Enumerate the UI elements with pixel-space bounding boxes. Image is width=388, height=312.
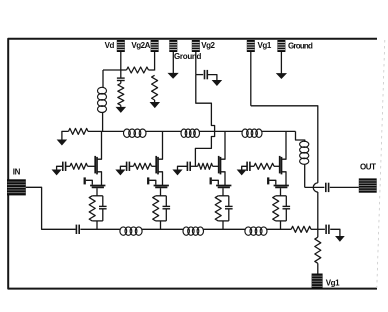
- capacitor C-s1 lead bot: [102, 209, 104, 221]
- capacitor C-s3 lead top: [228, 196, 230, 207]
- ground gate-term bypass: [336, 236, 344, 241]
- wire R-Vd to gnd: [120, 105, 122, 107]
- wire Vd node left: [103, 69, 121, 71]
- inductor L-out: [300, 141, 309, 164]
- capacitor C-gate-term: [326, 225, 329, 234]
- wire gate rail d: [267, 228, 291, 230]
- wire cell1 gnd stem: [57, 166, 63, 170]
- label Ground top-mid: [174, 52, 201, 61]
- transistor Q3B channel: [218, 186, 230, 188]
- wire drain rail d: [262, 130, 296, 132]
- wire RC1 bottom tee: [92, 220, 103, 222]
- wire Q4A source: [282, 172, 287, 185]
- wire RC4 bottom tee: [276, 220, 287, 222]
- resistor R-g3: [198, 163, 213, 169]
- resistor R-g2: [134, 163, 152, 169]
- resistor R-Vg1: [315, 237, 321, 263]
- transistor Q3B gate tick: [210, 177, 212, 184]
- label Vg1 top: [258, 41, 272, 50]
- inductor Ld2: [181, 129, 200, 137]
- transistor Q1A channel: [96, 157, 98, 175]
- wire Q4B gate lead: [269, 180, 276, 184]
- wire output to pad: [330, 186, 359, 188]
- ground Vd bias: [116, 107, 125, 112]
- wire Q1A drain: [97, 131, 102, 159]
- wire cell2 gnd stem: [120, 166, 126, 170]
- wire RC2 top tee: [156, 195, 167, 197]
- resistor R-Vd: [118, 83, 124, 105]
- svg-text:Ground: Ground: [288, 42, 313, 51]
- wire Vg2 pad stem: [195, 52, 197, 75]
- svg-text:IN: IN: [13, 167, 21, 176]
- label Vd: [105, 41, 115, 50]
- wire RC3 top tee: [218, 195, 229, 197]
- ground drain termination: [57, 140, 66, 145]
- label IN: [13, 167, 21, 176]
- ground cell3 bypass: [173, 170, 182, 175]
- pad Ground top-right: [277, 40, 285, 52]
- capacitor C-g2: [127, 162, 130, 171]
- resistor R-s2: [153, 196, 159, 221]
- pad Ground top-mid: [169, 40, 177, 52]
- transistor Q3A channel: [220, 157, 222, 175]
- resistor R-s4: [273, 196, 279, 221]
- pad Vd: [117, 40, 125, 52]
- svg-text:Ground: Ground: [174, 52, 201, 61]
- resistor R-g1: [70, 163, 88, 169]
- inductor Lg3: [245, 227, 267, 235]
- wire Vg1 feed: [251, 106, 318, 183]
- wire R-Vg1 to pad: [317, 263, 319, 273]
- transistor Q2B channel: [155, 186, 167, 188]
- wire Q4B source stem: [280, 188, 282, 196]
- wire gate rail a: [80, 228, 120, 230]
- capacitor C-g1: [63, 162, 66, 171]
- ground cell1 bypass: [52, 170, 61, 175]
- wire Q2A drain: [158, 131, 163, 159]
- ground cell4 bypass: [237, 170, 246, 175]
- resistor R-g4: [254, 163, 274, 169]
- capacitor C-s3: [225, 206, 233, 208]
- pad OUT: [359, 178, 377, 192]
- ground G6 symbol: [277, 74, 287, 79]
- wire Q3B source stem: [222, 188, 224, 196]
- wire Vg1 node down: [317, 229, 319, 237]
- resistor R-s1: [89, 196, 95, 221]
- wire Q3A source: [221, 172, 226, 185]
- wire Q1B source stem: [96, 188, 98, 196]
- inductor Ld3: [242, 129, 262, 137]
- wire Q4A drain: [282, 131, 287, 159]
- capacitor C-Vd stem: [120, 70, 122, 78]
- resistor R-gate-term: [291, 226, 311, 232]
- transistor Q4A channel: [281, 157, 283, 175]
- wire cell3 gnd stem: [178, 166, 188, 170]
- wire gate rail b: [142, 228, 183, 230]
- resistor R-drain-term: [69, 128, 89, 134]
- svg-text:Vg1: Vg1: [258, 41, 272, 50]
- transistor Q3B gate bar: [216, 185, 231, 187]
- svg-text:Vg1: Vg1: [326, 278, 340, 287]
- wire cell2 cap to R: [130, 165, 134, 167]
- capacitor C-out: [326, 183, 329, 192]
- wire cell4 cap to R: [250, 165, 254, 167]
- transistor Q1B gate tick: [84, 177, 86, 184]
- wire C-gate-term to gnd: [330, 229, 340, 236]
- wire R-VdVg2A leads: [121, 69, 155, 71]
- svg-text:Vg2: Vg2: [201, 41, 215, 50]
- wire drain jog: [296, 131, 305, 142]
- pad Vg2A: [151, 40, 159, 52]
- wire gate rail c: [204, 228, 246, 230]
- wire choke to drain rail: [102, 113, 104, 132]
- ground cell2 bypass: [116, 170, 125, 175]
- wire Vg2 right: [196, 74, 203, 76]
- resistor R-Vg2A: [152, 75, 158, 100]
- wire Vd to choke: [102, 70, 104, 87]
- wire Q2B source stem: [160, 188, 162, 196]
- transistor Q2B gate tick: [147, 177, 149, 184]
- svg-text:Vd: Vd: [105, 41, 115, 50]
- transistor Q2A gate bar: [155, 156, 157, 174]
- wire gate term to node: [311, 228, 325, 230]
- svg-text:OUT: OUT: [360, 162, 376, 171]
- capacitor C-Vg2: [205, 70, 208, 79]
- inductor Ld1: [124, 129, 147, 137]
- capacitor C-g4: [247, 162, 250, 171]
- resistor R-VdVg2A: [127, 67, 149, 73]
- wire drain rail b: [146, 130, 181, 132]
- svg-text:Vg2A: Vg2A: [131, 41, 150, 50]
- inductor Lg1: [120, 227, 142, 235]
- label Ground top-right: [288, 42, 313, 51]
- capacitor C-in: [76, 225, 79, 234]
- wire Ground pad stem: [172, 52, 174, 73]
- transistor Q1B channel: [92, 186, 104, 188]
- wire RC3 bottom tee: [218, 220, 229, 222]
- capacitor C-s4 lead bot: [285, 209, 287, 221]
- wire cell1 cap to R: [66, 165, 70, 167]
- wire drain rail c: [200, 130, 243, 132]
- wire L-out to output: [304, 164, 306, 187]
- wire Vg1 pad stem: [250, 52, 252, 106]
- pad Vg1 bottom: [312, 274, 323, 290]
- wire RC2 bottom tee: [156, 220, 167, 222]
- wire R-g1 to gate: [88, 165, 96, 167]
- wire Vd pad stem: [120, 52, 122, 70]
- transistor Q4B gate bar: [274, 185, 289, 187]
- transistor Q2B gate bar: [154, 185, 169, 187]
- wire Q1B gate lead: [86, 180, 93, 184]
- frame border: [8, 39, 377, 289]
- wire cell1 to gate rail: [96, 221, 98, 229]
- wire Vg2 feed: [195, 75, 214, 167]
- capacitor C-s4 lead top: [285, 196, 287, 207]
- wire R-g4 to gate: [274, 165, 280, 167]
- capacitor C-s1: [99, 206, 107, 208]
- ground G3 symbol: [168, 73, 178, 78]
- transistor Q1A gate bar: [94, 156, 96, 174]
- wire output: [305, 186, 325, 188]
- scan page edge: [377, 40, 385, 288]
- wire cell3 cap to R: [190, 165, 197, 167]
- capacitor C-g3: [187, 162, 190, 171]
- capacitor C-s3 lead bot: [228, 209, 230, 221]
- ground Vg2A bias: [150, 102, 159, 107]
- wire C-Vg2 to gnd: [207, 75, 217, 81]
- wire R-Vg2A to gnd: [154, 100, 156, 102]
- wire Q3A drain: [221, 131, 226, 159]
- wire Vg1 feed lower: [317, 192, 319, 229]
- transistor Q4B gate tick: [267, 177, 269, 184]
- wire cell2 to gate rail: [160, 221, 162, 229]
- wire R-g3 to gate: [213, 165, 219, 167]
- label OUT: [360, 162, 376, 171]
- wire RC1 top tee: [92, 195, 103, 197]
- pad IN: [7, 179, 26, 195]
- label Vg2A: [131, 41, 150, 50]
- pad Vg2: [192, 40, 200, 52]
- ground Vg2 bypass: [212, 80, 221, 85]
- wire Q3B gate lead: [212, 180, 219, 184]
- wire RC4 top tee: [276, 195, 287, 197]
- wire R-g2 to gate: [152, 165, 157, 167]
- transistor Q1B gate bar: [90, 185, 105, 187]
- label Vg2: [201, 41, 215, 50]
- transistor Q4B channel: [275, 186, 287, 188]
- capacitor C-s4: [283, 206, 291, 208]
- wire Ground right stem: [280, 52, 282, 74]
- wire Q2A source: [158, 172, 163, 185]
- wire Q2B gate lead: [149, 180, 156, 184]
- transistor Q3A gate bar: [218, 156, 220, 174]
- wire cell3 to gate rail: [222, 221, 224, 229]
- wire drain rail a: [88, 130, 124, 132]
- wire Q1A source: [97, 172, 102, 185]
- pad Vg1 top: [247, 40, 255, 52]
- inductor Lg2: [183, 227, 204, 235]
- capacitor C-Vd: [117, 78, 125, 80]
- capacitor C-s1 lead top: [102, 196, 104, 207]
- inductor L-Vd choke: [98, 87, 107, 112]
- wire Vg1 hop over output: [313, 183, 318, 192]
- transistor Q2A channel: [157, 157, 159, 175]
- wire cell4 gnd stem: [242, 166, 247, 170]
- wire IN to gate rail: [26, 187, 76, 229]
- label Vg1 bottom: [326, 278, 340, 287]
- wire drain term: [62, 131, 69, 139]
- capacitor C-s2 lead top: [165, 196, 167, 207]
- wire C-Vd to R: [120, 81, 122, 83]
- wire cell4 to gate rail: [280, 221, 282, 229]
- transistor Q4A gate bar: [279, 156, 281, 174]
- capacitor C-s2: [163, 206, 171, 208]
- resistor R-s3: [215, 196, 221, 221]
- wire Vg2A pad stem: [154, 52, 156, 71]
- capacitor C-s2 lead bot: [165, 209, 167, 221]
